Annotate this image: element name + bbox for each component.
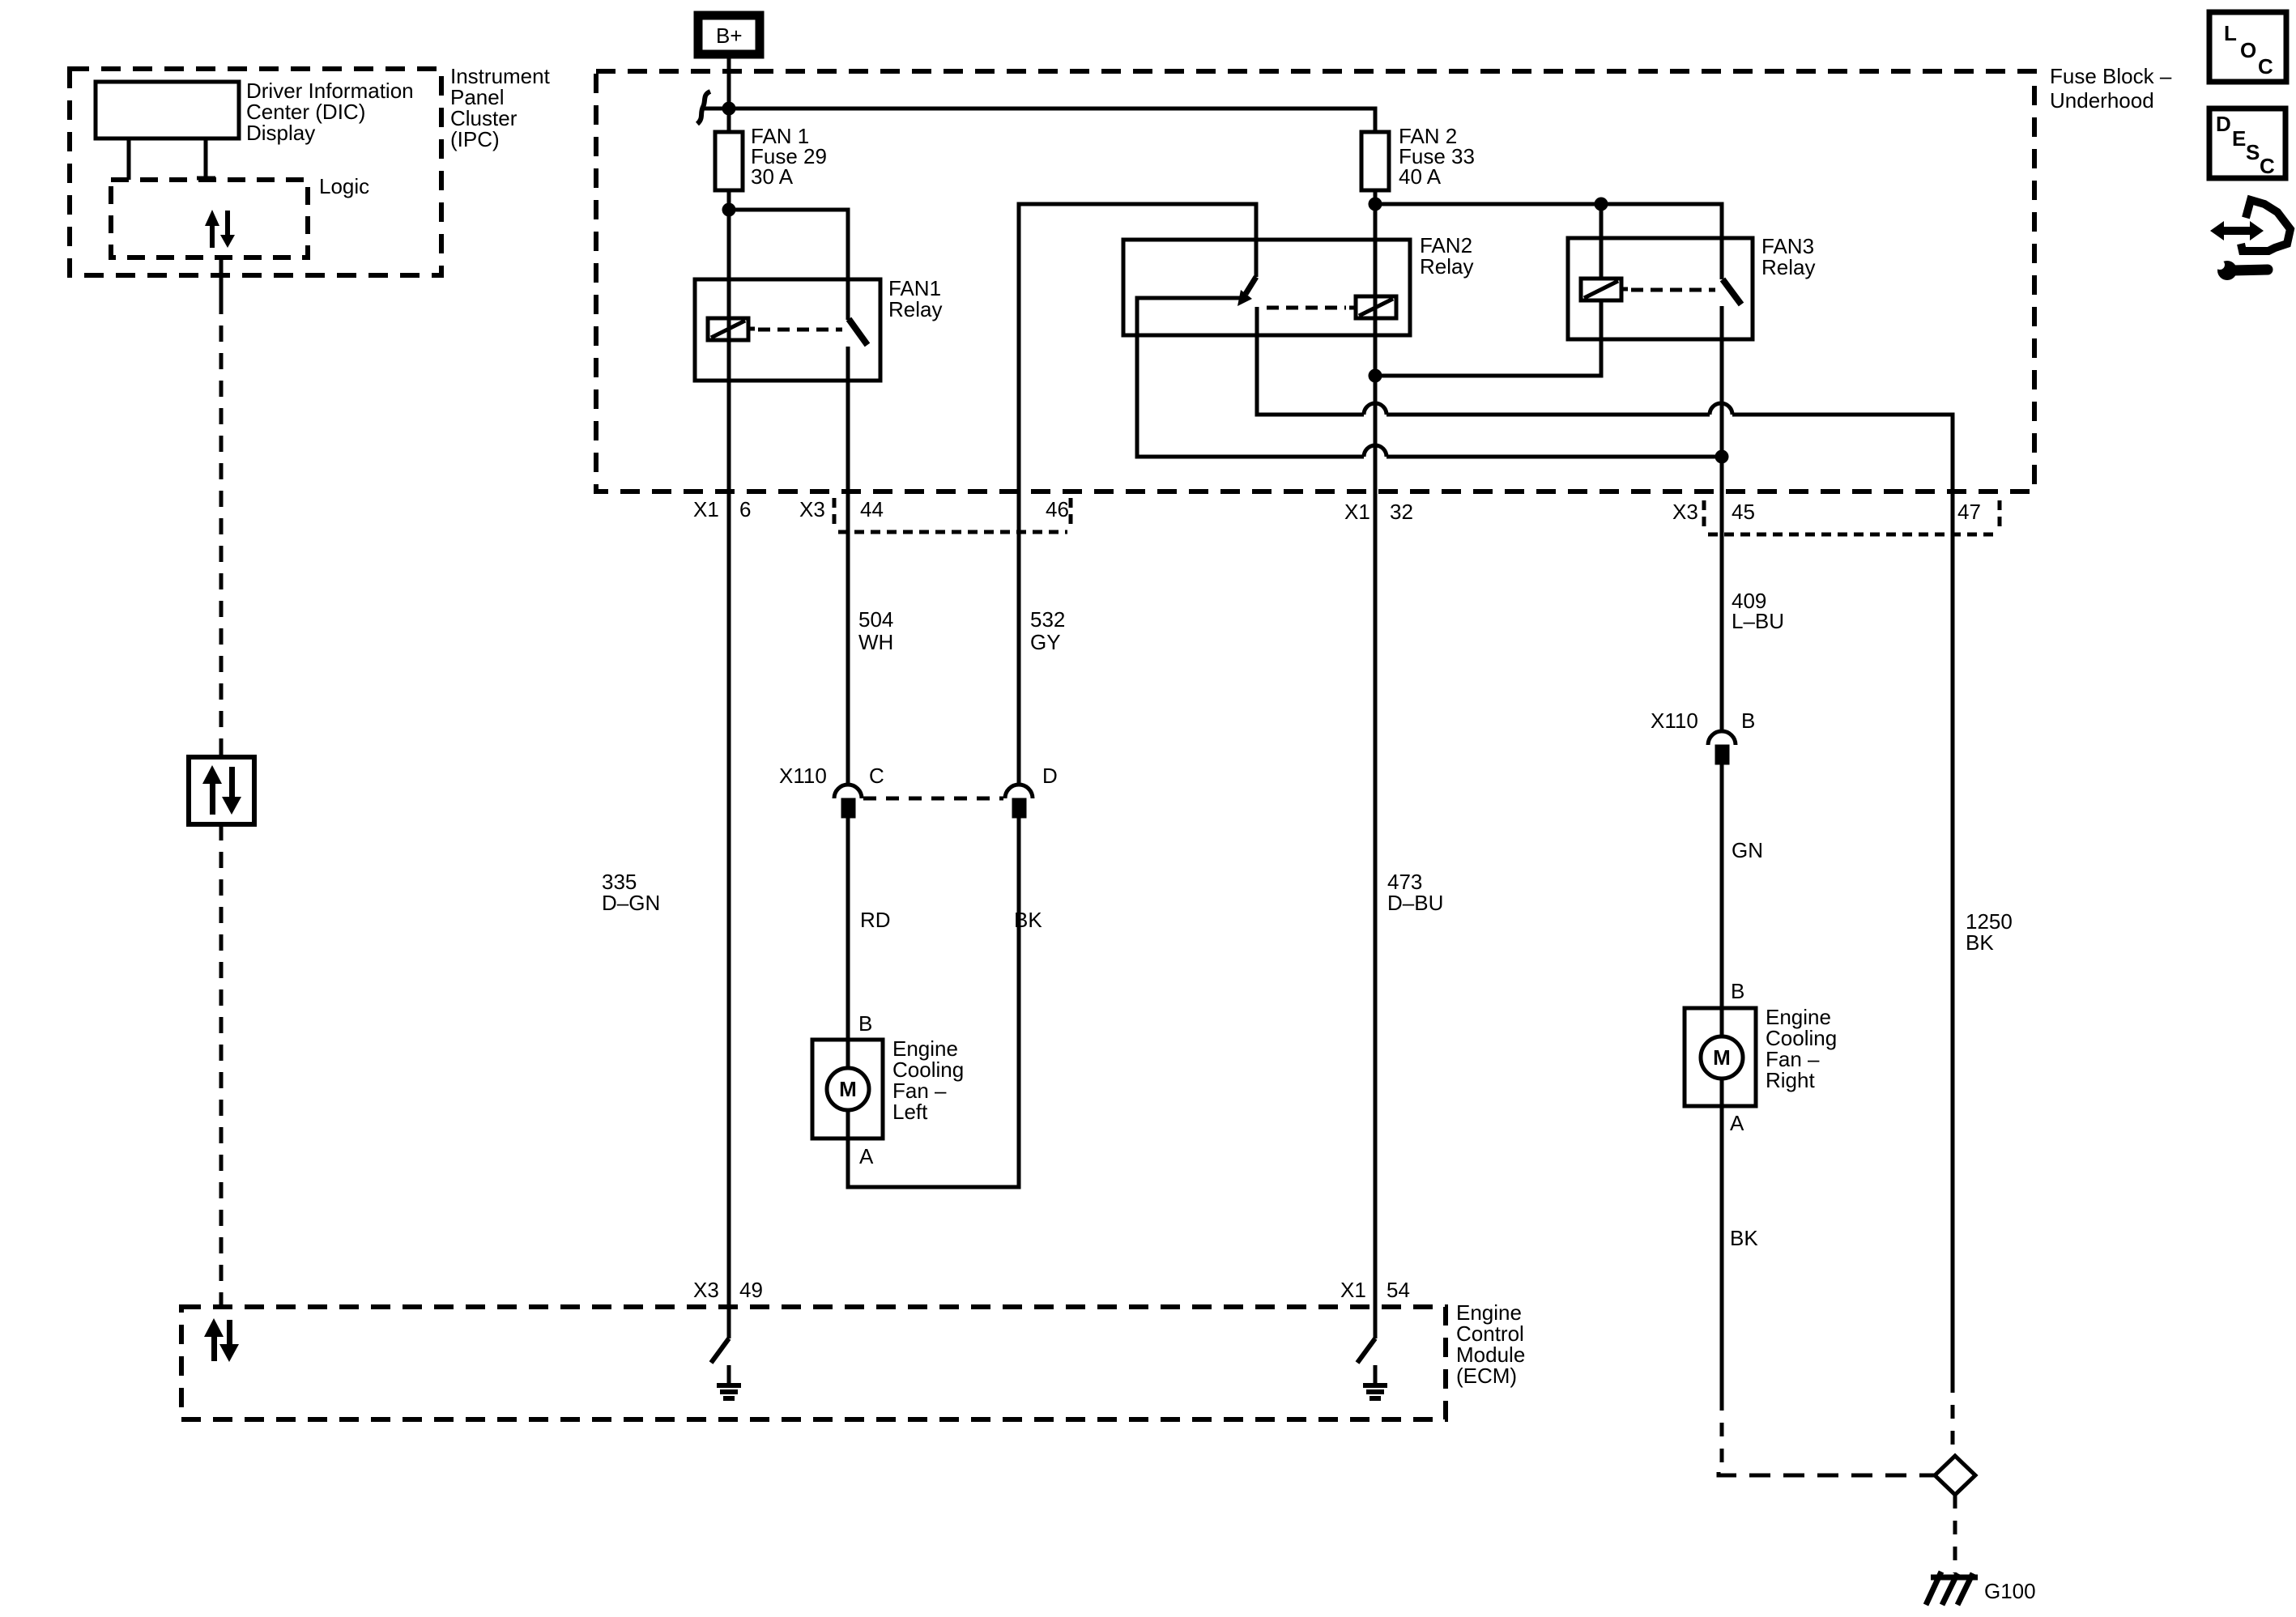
svg-text:X1: X1	[1340, 1278, 1366, 1302]
svg-text:Underhood: Underhood	[2050, 88, 2154, 113]
svg-text:BK: BK	[1014, 908, 1042, 932]
svg-text:46: 46	[1046, 497, 1069, 521]
svg-text:M: M	[1713, 1045, 1731, 1070]
svg-text:(IPC): (IPC)	[450, 127, 500, 151]
svg-text:WH: WH	[858, 630, 893, 654]
svg-text:Relay: Relay	[888, 297, 942, 321]
svg-text:A: A	[859, 1144, 874, 1168]
svg-text:504: 504	[858, 607, 893, 632]
svg-text:D: D	[2216, 112, 2231, 136]
svg-text:RD: RD	[860, 908, 891, 932]
svg-text:C: C	[2260, 154, 2275, 178]
svg-text:532: 532	[1030, 607, 1065, 632]
svg-text:30 A: 30 A	[751, 164, 794, 189]
svg-text:B: B	[858, 1011, 872, 1036]
svg-text:BK: BK	[1966, 930, 1994, 955]
svg-text:X110: X110	[779, 764, 827, 788]
svg-text:Display: Display	[246, 121, 315, 145]
svg-text:C: C	[2258, 54, 2273, 79]
svg-text:45: 45	[1732, 500, 1755, 524]
svg-text:Logic: Logic	[319, 174, 369, 198]
svg-text:GN: GN	[1732, 838, 1763, 862]
svg-text:O: O	[2240, 38, 2256, 62]
svg-text:32: 32	[1390, 500, 1413, 524]
svg-text:L: L	[2224, 21, 2237, 45]
svg-text:47: 47	[1957, 500, 1981, 524]
svg-text:A: A	[1730, 1111, 1744, 1135]
svg-text:M: M	[839, 1077, 857, 1101]
svg-text:Left: Left	[892, 1100, 928, 1124]
svg-text:L–BU: L–BU	[1732, 609, 1784, 633]
svg-text:X1: X1	[1344, 500, 1370, 524]
svg-text:6: 6	[739, 497, 751, 521]
svg-text:(ECM): (ECM)	[1456, 1364, 1517, 1388]
svg-text:44: 44	[860, 497, 884, 521]
svg-text:Fuse Block –: Fuse Block –	[2050, 64, 2172, 88]
svg-text:X3: X3	[1672, 500, 1698, 524]
svg-text:GY: GY	[1030, 630, 1061, 654]
svg-text:B: B	[1731, 979, 1744, 1003]
svg-text:54: 54	[1387, 1278, 1410, 1302]
svg-text:Relay: Relay	[1420, 254, 1473, 279]
svg-text:S: S	[2246, 140, 2260, 164]
svg-text:Right: Right	[1766, 1068, 1815, 1092]
svg-text:D–GN: D–GN	[602, 891, 660, 915]
svg-text:E: E	[2232, 126, 2246, 151]
svg-text:D: D	[1042, 764, 1058, 788]
svg-text:B+: B+	[716, 23, 743, 48]
svg-text:C: C	[869, 764, 884, 788]
svg-text:49: 49	[739, 1278, 763, 1302]
svg-text:X1: X1	[693, 497, 719, 521]
svg-text:Relay: Relay	[1761, 255, 1815, 279]
svg-text:X3: X3	[799, 497, 825, 521]
svg-text:D–BU: D–BU	[1387, 891, 1443, 915]
svg-text:BK: BK	[1730, 1226, 1758, 1250]
svg-text:B: B	[1741, 709, 1755, 733]
svg-text:G100: G100	[1984, 1579, 2036, 1603]
svg-text:X110: X110	[1651, 709, 1698, 733]
svg-text:40 A: 40 A	[1399, 164, 1442, 189]
svg-text:X3: X3	[693, 1278, 719, 1302]
